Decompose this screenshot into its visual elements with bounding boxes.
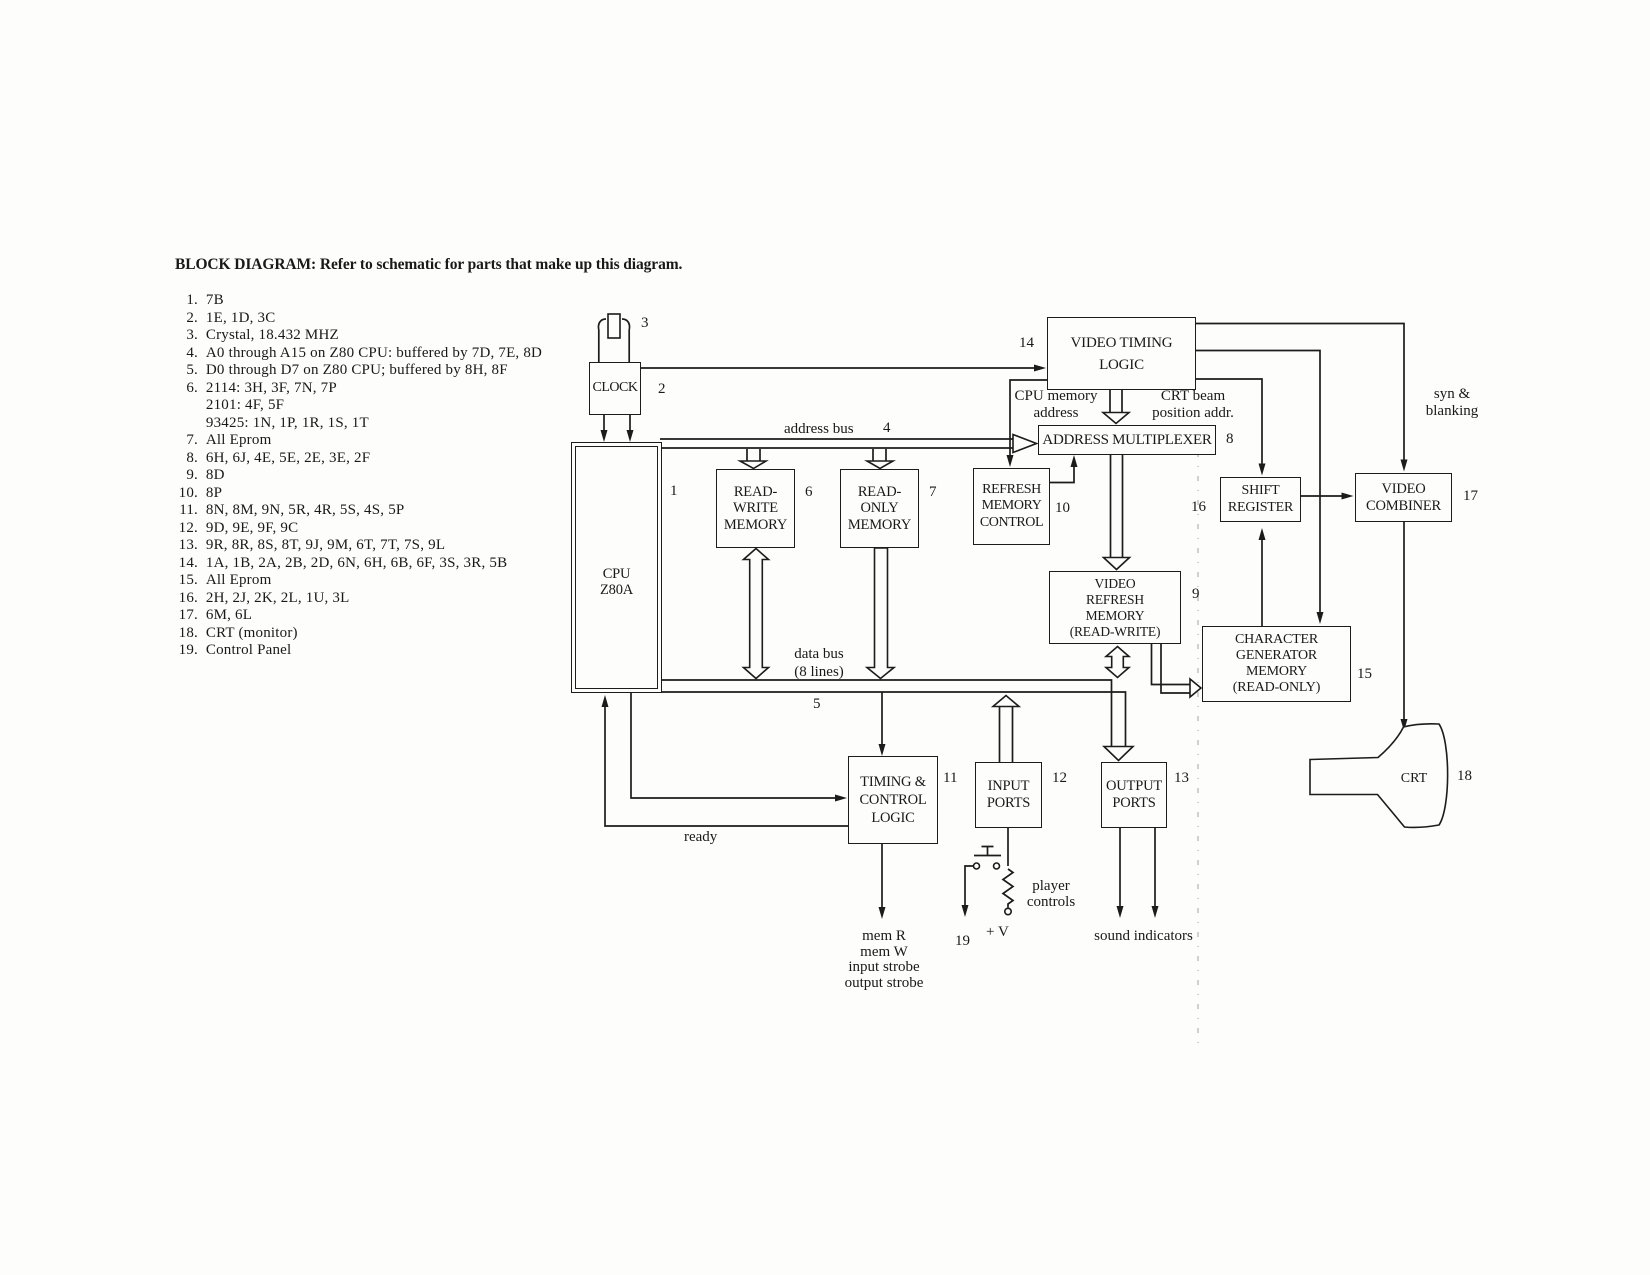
wire output ports to sound indicators (left) <box>1117 828 1124 918</box>
CRT 18 (monitor funnel) <box>1310 724 1448 828</box>
input ports 12 <box>975 762 1042 828</box>
label + V <box>986 924 1009 941</box>
video timing logic 14 <box>1047 317 1196 390</box>
bus branch into read-only memory <box>867 449 893 469</box>
ref number 7 <box>929 484 937 501</box>
wire clock to CPU (right) <box>627 415 634 442</box>
timing & control logic 11 <box>848 756 938 844</box>
ref number 6 <box>805 484 813 501</box>
wire refresh memory control to address multiplexer <box>1050 455 1078 483</box>
CPU Z80A 1 <box>571 442 662 693</box>
wire clock to video timing logic <box>641 365 1046 372</box>
read-write memory 6 <box>716 469 795 548</box>
read-only memory 7 <box>840 469 919 548</box>
wire video combiner to CRT <box>1401 522 1408 731</box>
label sound indicators <box>1086 928 1201 945</box>
label data bus (8 lines) <box>769 645 869 681</box>
wire clock to CPU (left) <box>601 415 608 442</box>
label CRT beam position addr. <box>1143 388 1243 422</box>
wire video timing logic to shift register <box>1196 379 1266 476</box>
crease line <box>1197 452 1199 1050</box>
ref number 3 <box>641 315 649 332</box>
label CRT <box>1396 770 1432 787</box>
bus: address multiplexer to video refresh memory <box>1104 455 1130 570</box>
wire CPU to timing & control logic <box>631 693 847 802</box>
wire data bus to timing & control logic <box>879 692 886 756</box>
label CPU memory address <box>1006 388 1106 422</box>
wire timing & control logic outputs <box>879 844 886 919</box>
label mem R / mem W / input strobe / output strobe <box>824 929 944 991</box>
ref number 17 <box>1463 488 1478 505</box>
ref number 16 <box>1191 499 1206 516</box>
label ready <box>684 829 717 846</box>
parts list <box>160 292 720 660</box>
data bus (5) <box>662 680 1133 761</box>
wire character generator memory to shift register <box>1259 528 1266 626</box>
bus: video timing logic to address multiplexer (CRT beam position addr.) <box>1103 390 1129 424</box>
address multiplexer 8 <box>1038 425 1216 455</box>
video refresh memory 9 <box>1049 571 1181 644</box>
ref number 15 <box>1357 666 1372 683</box>
+V terminal <box>1005 908 1011 914</box>
shift register 16 <box>1220 477 1301 522</box>
ref number 9 <box>1192 586 1200 603</box>
video combiner 17 <box>1355 473 1452 522</box>
ref number 14 <box>1019 335 1034 352</box>
wire shift register to video combiner <box>1301 493 1354 500</box>
clock 2 <box>589 362 641 415</box>
output ports 13 <box>1101 762 1167 828</box>
character generator memory 15 <box>1202 626 1351 702</box>
wire input ports to player controls <box>1007 828 1009 866</box>
bus: video refresh memory to character generator memory <box>1152 644 1202 697</box>
ref number 18 <box>1457 768 1472 785</box>
ref number 1 <box>670 483 678 500</box>
ref number 12 <box>1052 770 1067 787</box>
ref number 4 <box>883 420 891 437</box>
ref number 13 <box>1174 770 1189 787</box>
wire video timing logic to refresh memory control <box>1007 380 1048 467</box>
ref number 11 <box>943 770 957 787</box>
push-button switch <box>974 847 1002 870</box>
bus: read-only memory to data bus <box>867 548 894 679</box>
wire video timing logic to video combiner (syn & blanking) <box>1196 324 1408 472</box>
wire switch to ground arrow <box>962 866 974 917</box>
resistor (player controls) <box>1003 869 1013 908</box>
bidirectional bus: video refresh memory to data bus <box>1106 647 1129 678</box>
label address bus <box>784 421 854 438</box>
crystal Y1 <box>598 314 629 362</box>
bidirectional bus: read-write memory to data bus <box>744 549 769 679</box>
ref number 5 <box>813 696 821 713</box>
ref number 8 <box>1226 431 1234 448</box>
ref number 19 <box>955 933 970 950</box>
address bus (4) <box>660 435 1037 453</box>
ref number 2 <box>658 381 666 398</box>
bus: input ports to data bus <box>993 696 1019 763</box>
ref number 10 <box>1055 500 1070 517</box>
wire video timing logic to character generator memory <box>1196 351 1324 625</box>
wire output ports to sound indicators (right) <box>1152 828 1159 918</box>
ready wire: timing & control logic to CPU <box>602 695 849 826</box>
title <box>175 256 682 273</box>
refresh memory control 10 <box>973 468 1050 545</box>
label player controls <box>1001 878 1101 910</box>
label syn & blanking <box>1402 386 1502 420</box>
bus branch into read-write memory <box>740 449 766 469</box>
